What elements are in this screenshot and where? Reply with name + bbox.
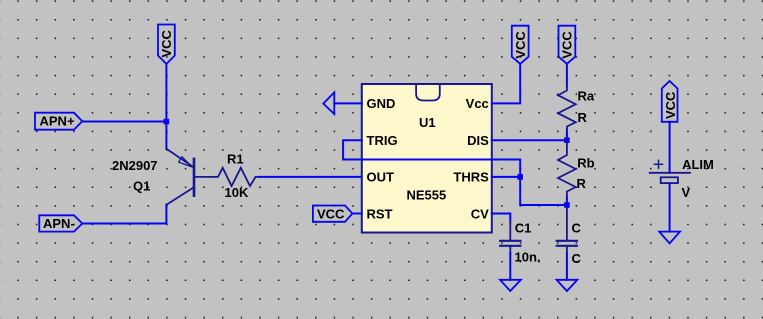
wire R1 to OUT pin: [259, 176, 362, 178]
op IC U1 NE555 body: [362, 84, 492, 233]
wire C to ground: [566, 253, 568, 280]
svg-text:Rb: Rb: [577, 156, 594, 171]
svg-text:2N2907: 2N2907: [112, 158, 158, 173]
svg-text:R: R: [578, 110, 588, 125]
wire Rb to node B: [566, 197, 568, 205]
wire CV pin to C1: [492, 214, 511, 223]
node DIS junction: [564, 137, 570, 143]
svg-text:ALIM: ALIM: [682, 157, 714, 172]
svg-text:C1: C1: [515, 221, 532, 236]
svg-text:GND: GND: [367, 96, 396, 111]
svg-text:C: C: [572, 251, 582, 266]
power flag VCC1 (top-left, above Q1): [158, 25, 175, 65]
svg-text:VCC: VCC: [663, 91, 678, 119]
svg-text:Q1: Q1: [133, 179, 150, 194]
svg-text:APN-: APN-: [43, 216, 75, 231]
svg-text:DIS: DIS: [467, 133, 489, 148]
wire VCC5 to battery: [669, 122, 671, 173]
net label APN+: [35, 113, 82, 130]
ground (battery): [659, 232, 680, 244]
svg-text:OUT: OUT: [367, 170, 395, 185]
power flag VCC2: [512, 26, 529, 64]
power flag VCC4 (RST): [313, 206, 353, 222]
power flag VCC3: [559, 26, 576, 64]
svg-text:APN+: APN+: [40, 114, 75, 129]
capacitor C: [557, 208, 577, 253]
wire VCC3 to Ra: [566, 64, 568, 86]
svg-text:R1: R1: [227, 152, 244, 167]
ground (C1): [500, 280, 521, 291]
battery ALIM: [650, 160, 690, 183]
svg-text:10K: 10K: [225, 185, 249, 200]
port arrow on GND pin: [323, 92, 334, 114]
svg-text:CV: CV: [471, 206, 489, 221]
wire DIS pin to node: [492, 139, 567, 141]
resistor Ra: [558, 86, 576, 130]
capacitor C1: [500, 222, 520, 253]
transistor Q1: [166, 149, 214, 205]
svg-text:THRS: THRS: [453, 170, 489, 185]
wire THRS pin: [492, 176, 520, 178]
svg-text:VCC: VCC: [159, 29, 174, 57]
node THRS junction: [517, 174, 523, 180]
svg-text:10n.: 10n.: [515, 250, 541, 265]
node A junction: [164, 119, 170, 125]
wire node A to Q1 emitter: [165, 122, 167, 149]
wire TRIG to THRS net: [343, 140, 567, 205]
svg-text:TRIG: TRIG: [367, 133, 398, 148]
ground (C): [557, 280, 578, 291]
wire VCC1 to node A: [165, 64, 167, 122]
wire GND pin: [334, 102, 362, 104]
net label APN-: [39, 215, 82, 231]
svg-text:VCC: VCC: [317, 206, 345, 221]
svg-text:NE555: NE555: [407, 188, 447, 203]
wire C1 to ground: [509, 253, 511, 280]
svg-text:U1: U1: [419, 115, 436, 130]
svg-text:R: R: [577, 176, 587, 191]
wire Vcc pin to VCC2: [492, 64, 520, 104]
power flag VCC5 (battery, points up): [662, 81, 678, 122]
node B junction: [564, 202, 570, 208]
wire Q1 collector to APN-: [82, 205, 166, 224]
resistor R1: [214, 168, 258, 186]
svg-text:VCC: VCC: [560, 31, 575, 59]
wire APN+ to node A: [82, 121, 166, 123]
svg-text:Ra: Ra: [578, 89, 595, 104]
wire Ra to node DIS: [566, 130, 568, 140]
svg-text:Vcc: Vcc: [466, 96, 489, 111]
wire RST pin: [352, 213, 361, 215]
resistor Rb: [558, 140, 576, 197]
svg-text:VCC: VCC: [513, 31, 528, 59]
svg-text:RST: RST: [367, 206, 393, 221]
svg-text:V: V: [682, 185, 691, 200]
svg-text:C: C: [572, 221, 582, 236]
wire battery to ground: [669, 183, 671, 232]
